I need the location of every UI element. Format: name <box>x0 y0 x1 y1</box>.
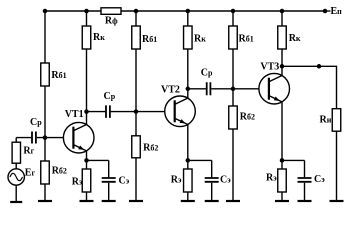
svg-text:Сэ: Сэ <box>220 175 231 186</box>
svg-text:Еп: Еп <box>331 6 343 17</box>
svg-text:Rэ: Rэ <box>266 173 277 184</box>
svg-text:Rк: Rк <box>93 32 105 43</box>
svg-text:Rг: Rг <box>23 146 34 157</box>
svg-text:Rб2: Rб2 <box>143 143 158 154</box>
svg-text:Rф: Rф <box>105 16 118 27</box>
svg-text:Rэ: Rэ <box>171 175 182 186</box>
svg-text:VT2: VT2 <box>161 85 180 96</box>
svg-text:Rб1: Rб1 <box>51 70 66 81</box>
svg-text:Rэ: Rэ <box>72 177 83 188</box>
svg-text:Rб1: Rб1 <box>142 34 157 45</box>
svg-text:Rи: Rи <box>320 115 332 126</box>
svg-text:Сэ: Сэ <box>119 176 130 187</box>
svg-text:Ср: Ср <box>30 117 42 128</box>
svg-text:Rб2: Rб2 <box>240 112 255 123</box>
svg-text:VT3: VT3 <box>260 62 279 73</box>
svg-text:Rк: Rк <box>289 33 301 44</box>
svg-text:Сэ: Сэ <box>314 174 325 185</box>
svg-text:Rк: Rк <box>194 33 206 44</box>
svg-text:Rб1: Rб1 <box>239 34 254 45</box>
svg-text:Ег: Ег <box>25 167 36 178</box>
svg-text:Ср: Ср <box>201 68 213 79</box>
svg-text:Rб2: Rб2 <box>52 166 67 177</box>
svg-text:Ср: Ср <box>104 91 116 102</box>
svg-text:VT1: VT1 <box>65 109 84 120</box>
